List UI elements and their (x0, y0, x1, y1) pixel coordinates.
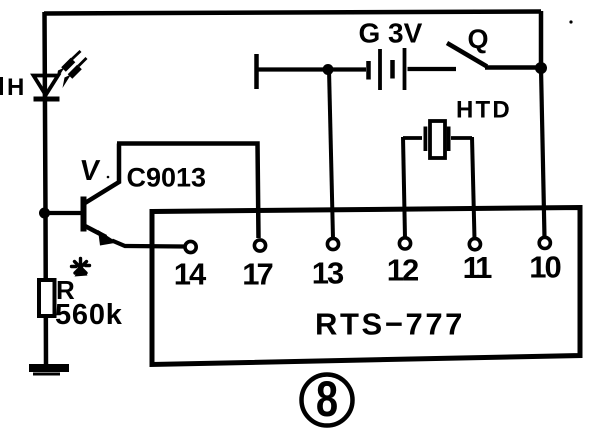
photodiode H (34, 76, 60, 100)
wire collector to pin 17 (117, 144, 259, 239)
svg-text:Q: Q (468, 24, 489, 54)
node junction to pin 13 (323, 64, 334, 75)
resistor R (39, 280, 55, 316)
figure number 8 (302, 371, 353, 427)
node junction to pin 10 (535, 62, 547, 74)
transistor V C9013 (84, 144, 185, 247)
pin 12 (399, 238, 410, 249)
svg-text:G 3V: G 3V (359, 18, 423, 49)
svg-text:RTS−777: RTS−777 (315, 307, 465, 342)
svg-text:8: 8 (316, 371, 338, 427)
speck (569, 20, 572, 23)
IC U1 RTS-777 box (152, 208, 580, 365)
svg-text:H: H (7, 74, 24, 101)
node junction dot at base wire (39, 208, 50, 219)
ground (29, 368, 69, 374)
wire right rail (539, 11, 544, 68)
svg-text:V: V (78, 155, 101, 187)
pin 11 (469, 239, 480, 250)
light arrow 1 (56, 51, 81, 81)
svg-text:10: 10 (529, 250, 560, 285)
svg-text:560k: 560k (55, 299, 123, 331)
svg-text:C9013: C9013 (127, 163, 207, 193)
pin 13 (327, 238, 338, 249)
wire to pin 13 (329, 70, 333, 239)
buzzer HTD (403, 121, 472, 158)
wire to pin 10 (541, 68, 545, 238)
scan artifact left edge (0, 77, 3, 95)
battery G 3V (369, 48, 457, 90)
svg-text:12: 12 (387, 253, 418, 288)
pin 10 (539, 237, 550, 248)
svg-text:14: 14 (174, 257, 207, 292)
svg-text:17: 17 (242, 257, 272, 292)
svg-text:13: 13 (312, 256, 344, 291)
switch Q (447, 43, 541, 68)
svg-text:11: 11 (463, 250, 493, 285)
svg-text:HTD: HTD (456, 97, 512, 124)
label asterisk (72, 259, 90, 274)
wire battery stub terminal (254, 54, 259, 89)
light arrow 2 (63, 58, 87, 88)
pin 14 (185, 241, 196, 252)
wire base (44, 211, 81, 215)
pin 17 (254, 240, 265, 251)
wire left rail (45, 12, 47, 366)
speck (107, 176, 110, 179)
wire top rail (44, 12, 541, 14)
wire to pin 11 (472, 137, 475, 239)
wire to pin 12 (403, 137, 405, 238)
